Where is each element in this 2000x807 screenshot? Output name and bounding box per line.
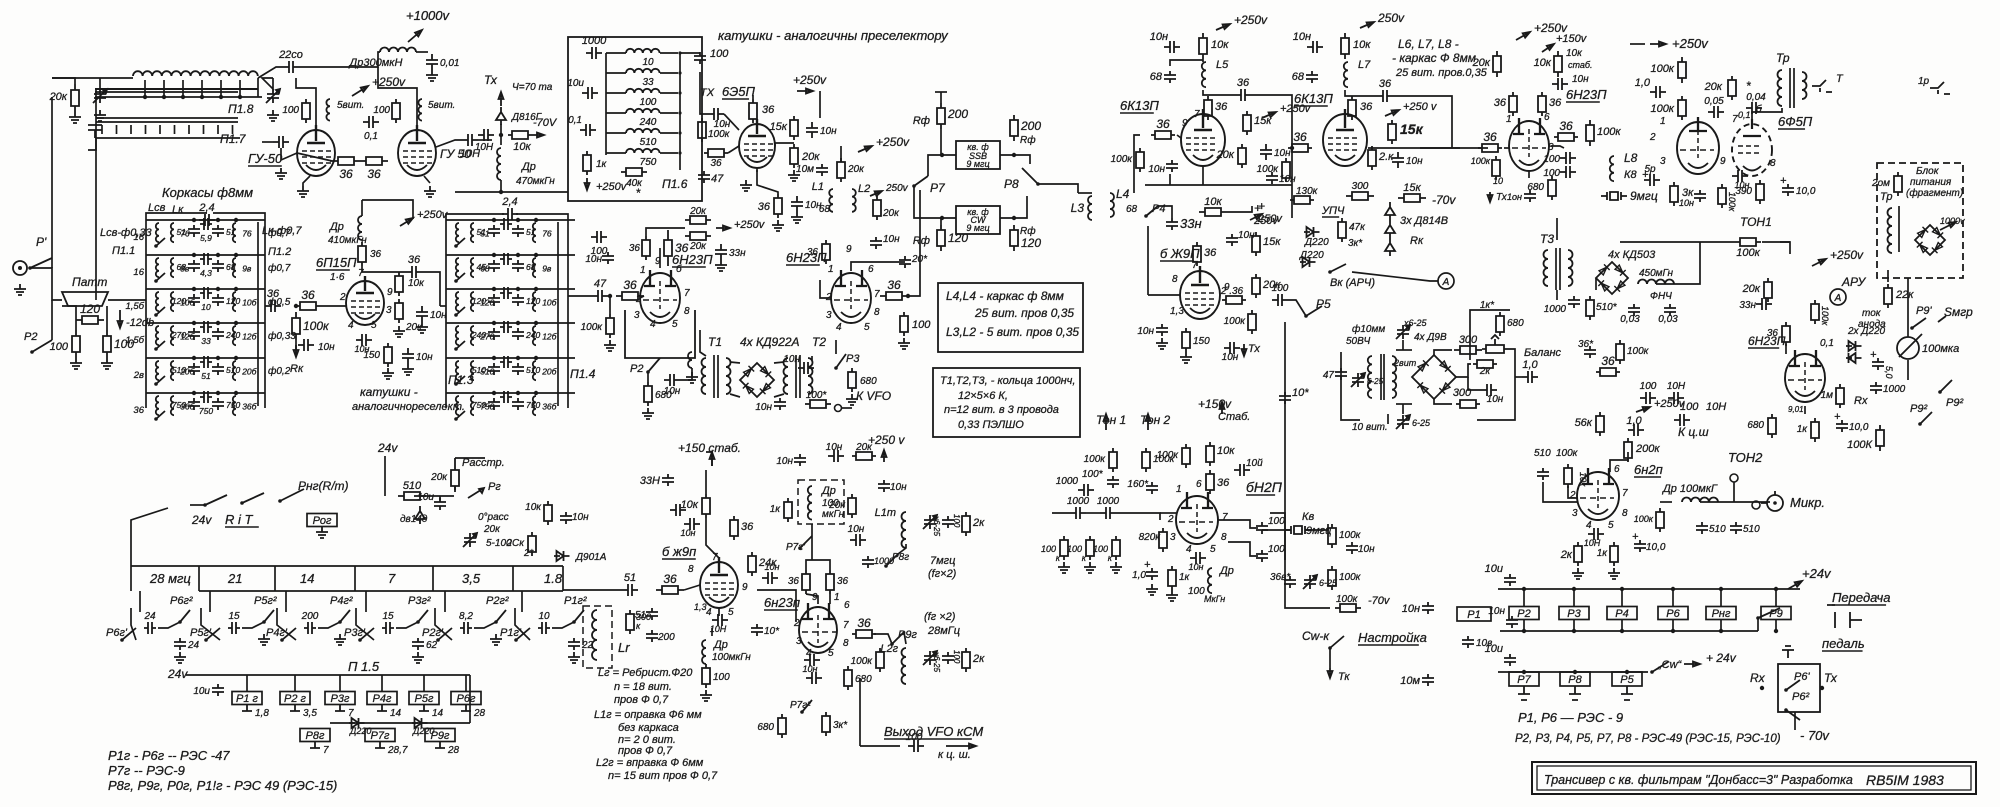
svg-text:100: 100 xyxy=(1093,544,1108,554)
svg-text:7: 7 xyxy=(843,620,849,631)
anode bars mixer2 xyxy=(835,270,867,286)
svg-text:(фрагмент): (фрагмент) xyxy=(1906,187,1963,199)
switch Р5г-1 xyxy=(204,638,208,642)
ground tick Р3г xyxy=(335,705,345,711)
diode Д220 ару2 xyxy=(1846,353,1862,363)
wire Р7 bus2 stub xyxy=(1523,671,1525,673)
resistor 1к осц xyxy=(1168,566,1176,590)
capacitor bank2 row3 c2 xyxy=(512,294,524,306)
svg-text:6Н23П: 6Н23П xyxy=(1748,334,1786,348)
svg-text:Rф: Rф xyxy=(913,115,930,127)
svg-text:450мГн: 450мГн xyxy=(1639,268,1674,279)
svg-text:20к: 20к xyxy=(801,151,820,163)
wire comb bus xyxy=(96,137,240,139)
svg-text:100: 100 xyxy=(1680,401,1699,413)
svg-text:100: 100 xyxy=(1041,544,1056,554)
svg-text:1к: 1к xyxy=(596,159,608,170)
inductor Др buf xyxy=(808,486,812,520)
ground cath cap xyxy=(402,364,414,375)
svg-text:510: 510 xyxy=(640,137,657,148)
resistor 36 det in xyxy=(1478,144,1502,152)
ground varcap right xyxy=(267,110,279,121)
svg-text:5: 5 xyxy=(371,320,377,331)
svg-text:100: 100 xyxy=(952,514,961,528)
svg-text:П1.8: П1.8 xyxy=(228,102,254,116)
capacitor 10н buf r xyxy=(878,480,890,492)
wire ару bus xyxy=(1804,406,1806,414)
svg-text:1000: 1000 xyxy=(1056,476,1079,487)
capacitor 10м mix xyxy=(816,164,828,176)
wire band separator 4 xyxy=(512,566,514,591)
svg-text:+150v: +150v xyxy=(1198,397,1232,411)
vacuum tube 6К13П 1 xyxy=(1181,114,1225,166)
resistor 20к m1a xyxy=(685,216,711,224)
wire mic grid xyxy=(1568,486,1577,498)
wire 6П15П out to bank2 xyxy=(440,305,446,307)
ground ж cath xyxy=(1180,352,1192,363)
switch Р2г-2 xyxy=(494,620,498,624)
wire тон2 stub xyxy=(1733,482,1735,502)
resistor 15к ж xyxy=(1252,232,1260,256)
svg-text:+: + xyxy=(1254,201,1261,215)
svg-text:100к: 100к xyxy=(1627,346,1650,357)
resistor 36 k2 in xyxy=(1288,144,1312,152)
wire comb tooth 8 xyxy=(217,125,219,134)
svg-text:(fг ×2): (fг ×2) xyxy=(924,611,956,623)
resistor 120 Rф bot xyxy=(937,225,945,251)
junction bias xyxy=(499,133,503,137)
wire P2 to attenuator out xyxy=(51,300,53,340)
capacitor Р4г 200 xyxy=(304,622,316,634)
junction Р6 bus xyxy=(1671,587,1675,591)
svg-text:10: 10 xyxy=(1493,176,1503,186)
svg-text:ф0,7: ф0,7 xyxy=(268,227,291,239)
ground tick Р1 г xyxy=(242,705,252,711)
resistor 36 det a xyxy=(1509,92,1517,116)
svg-text:68: 68 xyxy=(1150,71,1163,83)
svg-text:Lк: Lк xyxy=(172,204,184,216)
inductor 5вит V1 xyxy=(326,99,330,121)
resistor 100к buf xyxy=(876,648,884,672)
capacitor bank2 row6 c1 xyxy=(488,398,500,410)
switch Р1 antenna xyxy=(28,266,32,270)
resistor 2ом пс xyxy=(1894,172,1902,196)
capacitor bank1 row4 7MHz c1 xyxy=(188,328,200,340)
trimmer 6-25 кв xyxy=(1303,575,1317,589)
inductor inj m1 xyxy=(688,352,692,368)
wire bm top drop xyxy=(1402,340,1404,350)
wire pot to rail2 xyxy=(1477,349,1515,420)
svg-text:Р5г: Р5г xyxy=(415,693,434,705)
relay Р5г п15 xyxy=(409,692,439,705)
svg-text:10н: 10н xyxy=(755,402,772,413)
arrow 250v mix2 xyxy=(870,191,882,196)
svg-text:Lr: Lr xyxy=(618,640,630,655)
wire к ату xyxy=(1780,242,1790,254)
inductor L5 xyxy=(1202,62,1206,87)
resistor 20к k1 xyxy=(1238,144,1246,168)
svg-text:Баланс: Баланс xyxy=(1524,347,1562,359)
wire cap to choke xyxy=(299,52,380,67)
svg-text:RB5IM 1983: RB5IM 1983 xyxy=(1866,772,1944,788)
switch Р7 to SSB xyxy=(912,184,916,188)
inductor L3 xyxy=(1088,196,1092,220)
ground Р2г g xyxy=(490,634,502,645)
capacitor bank2 row1 c2 xyxy=(512,225,524,237)
resistor 36 ж plate xyxy=(1193,242,1201,266)
svg-text:8: 8 xyxy=(1548,142,1554,153)
svg-text:Р5: Р5 xyxy=(1620,674,1634,686)
diode Д901А xyxy=(554,551,570,561)
svg-text:5: 5 xyxy=(728,607,734,618)
switch rit a xyxy=(203,503,207,507)
wire р4 line xyxy=(1158,206,1172,218)
wire bank2 row5 rail xyxy=(446,357,575,359)
svg-text:Тх: Тх xyxy=(484,73,498,87)
svg-text:36: 36 xyxy=(301,288,315,302)
ground att right xyxy=(101,358,113,369)
svg-text:Тх: Тх xyxy=(1824,671,1838,685)
svg-text:Rх: Rх xyxy=(1854,395,1868,407)
svg-text:Р8г, Р9г, Р0г, Р1!г - РЭС 49 (: Р8г, Р9г, Р0г, Р1!г - РЭС 49 (РЭС-15) xyxy=(108,778,337,793)
capacitor Р1г 10 xyxy=(538,622,550,634)
svg-text:1000: 1000 xyxy=(1097,496,1120,507)
capacitor 10н Rк xyxy=(298,339,314,351)
inductor 10 п16 xyxy=(626,49,660,53)
svg-text:Р9²: Р9² xyxy=(1946,397,1963,409)
resistor 36 ару xyxy=(1782,322,1790,346)
wire band drop 0 xyxy=(139,591,141,612)
wire т3 net xyxy=(1595,278,1597,290)
junction bank2 row1 a xyxy=(492,218,496,222)
svg-text:36: 36 xyxy=(1559,119,1573,133)
capacitor 10н k1r xyxy=(1260,144,1272,160)
svg-text:36: 36 xyxy=(762,104,775,116)
wire k2 tank to cap xyxy=(1345,90,1377,96)
svg-text:+250v: +250v xyxy=(793,73,827,87)
inductor bank2 row4 Lout xyxy=(533,326,536,345)
junction bank2 row6 a xyxy=(492,391,496,395)
resistor 300 bm top xyxy=(1454,346,1482,354)
svg-text:Р1: Р1 xyxy=(1467,609,1480,621)
wire T1 core a xyxy=(713,355,715,398)
svg-text:36: 36 xyxy=(1217,477,1230,489)
svg-text:2Ск: 2Ск xyxy=(505,538,525,549)
arrow тх ж xyxy=(1242,344,1247,356)
inductor L8 det xyxy=(1610,156,1614,181)
capacitor bank1 row2 21MHz c2 xyxy=(212,260,224,272)
wire PA out xyxy=(436,140,462,147)
capacitor 5,0 ф cath xyxy=(1644,174,1660,186)
svg-text:ф0,7: ф0,7 xyxy=(268,262,291,274)
switch Р2 bypass xyxy=(30,350,34,354)
inductor T1 secondary xyxy=(726,358,731,394)
wire п16 row 33 left xyxy=(606,72,626,74)
junction п16 750 xyxy=(678,151,681,154)
junction Р9 bus low xyxy=(1774,629,1778,633)
inductor bank2 row2 Lсв xyxy=(456,258,459,277)
ground screen cap xyxy=(416,322,428,333)
resistor 20к ж xyxy=(1252,274,1260,298)
relay Р7 bus2 xyxy=(1509,672,1539,686)
svg-text:100к: 100к xyxy=(708,129,731,140)
capacitor 1000 т3 xyxy=(1568,296,1580,308)
svg-text:1,5б: 1,5б xyxy=(125,301,144,312)
wire bm top rail xyxy=(1396,349,1412,351)
svg-text:А: А xyxy=(1442,277,1450,288)
svg-text:педаль: педаль xyxy=(1822,636,1865,651)
svg-text:пров Ф 0,7: пров Ф 0,7 xyxy=(618,745,673,757)
svg-text:10б: 10б xyxy=(242,298,257,308)
vacuum tube 6Н23П mixer1 xyxy=(640,273,680,323)
capacitor 0,1 screen xyxy=(363,116,379,128)
wire 6ж9п grid xyxy=(1148,294,1180,296)
svg-text:15к: 15к xyxy=(1400,121,1424,137)
svg-text:100к: 100к xyxy=(303,319,330,333)
resistor 300 bm bot xyxy=(1456,400,1480,408)
svg-text:6К13П: 6К13П xyxy=(1294,91,1333,106)
junction bank2 row2 c xyxy=(534,253,538,257)
svg-text:Т1,Т2,Т3, - кольца 1000нч,: Т1,Т2,Т3, - кольца 1000нч, xyxy=(940,375,1075,387)
ground 33н m1 xyxy=(715,260,727,271)
svg-text:100: 100 xyxy=(1543,154,1560,165)
svg-text:+150 стаб.: +150 стаб. xyxy=(678,441,741,455)
junction bank1 row4 7MHz b xyxy=(216,321,220,325)
wire Р1г drop xyxy=(515,608,530,640)
svg-text:1р: 1р xyxy=(1918,76,1930,87)
resistor 150 cathode xyxy=(384,343,392,367)
resistor 100к ф b xyxy=(1678,96,1686,120)
svg-text:100: 100 xyxy=(1067,544,1082,554)
relay Р1 bus xyxy=(1457,607,1491,621)
svg-text:100к: 100к xyxy=(1556,448,1579,459)
svg-text:Р6г²: Р6г² xyxy=(170,595,193,607)
capacitor 10и bus a xyxy=(1504,574,1516,586)
wire choke to +250 xyxy=(362,200,413,219)
relay Р1 г п15 xyxy=(232,692,262,705)
inductor bank2 row6 Lout xyxy=(533,396,536,415)
svg-text:14: 14 xyxy=(432,708,444,719)
svg-text:100к: 100к xyxy=(1339,530,1362,541)
junction Р2 bus low xyxy=(1522,629,1526,633)
svg-text:Rф: Rф xyxy=(913,235,930,247)
diode Д814В 2 xyxy=(1385,220,1395,238)
svg-text:Др: Др xyxy=(328,221,344,233)
junction bank1 row5 3.5MHz a xyxy=(192,356,196,360)
svg-text:Настройка: Настройка xyxy=(1358,630,1427,645)
diode Д220 ару1 xyxy=(1846,341,1862,351)
svg-text:6Н23П: 6Н23П xyxy=(1566,87,1607,102)
svg-text:х6-25: х6-25 xyxy=(932,515,941,537)
svg-text:МкГн: МкГн xyxy=(1204,594,1225,604)
wire band bus bottom xyxy=(199,590,563,592)
wire ж to р5 xyxy=(1288,300,1306,316)
vacuum tube 6Ф5П pentode envelope xyxy=(1732,124,1772,176)
wire band drop 2 xyxy=(285,591,287,612)
wire mixer chain xyxy=(774,143,776,146)
svg-text:К ц.ш: К ц.ш xyxy=(1678,425,1709,439)
svg-text:П1.7: П1.7 xyxy=(220,132,247,146)
svg-text:Р': Р' xyxy=(36,235,47,249)
junction bank2 row3 b xyxy=(516,287,520,291)
capacitor 36 out xyxy=(406,266,422,278)
box Др buf dashed xyxy=(798,480,844,524)
resistor 100к тон2 xyxy=(1142,448,1150,472)
resistor 680 m2 xyxy=(848,368,856,392)
svg-text:2к: 2к xyxy=(972,517,985,529)
ground cathode V1 xyxy=(297,186,309,197)
svg-text:L1г = оправка Ф6 мм: L1г = оправка Ф6 мм xyxy=(594,709,702,721)
capacitor bank2 row5 c1 xyxy=(488,363,500,375)
junction cw out xyxy=(1012,216,1016,220)
svg-text:12×5×6 К,: 12×5×6 К, xyxy=(958,390,1008,402)
svg-text:5,0: 5,0 xyxy=(1884,366,1894,379)
capacitor 0,04 ф xyxy=(1746,102,1762,114)
svg-text:680: 680 xyxy=(757,722,774,733)
switch Р3 xyxy=(834,366,838,370)
switch rit c xyxy=(278,499,282,503)
svg-text:бН2П: бН2П xyxy=(1246,479,1283,495)
svg-text:П1.1: П1.1 xyxy=(112,245,135,257)
resistor 1к buf xyxy=(784,498,792,522)
capacitor Р3г 62 xyxy=(412,638,424,650)
resistor 200к mic xyxy=(1624,438,1632,462)
svg-text:10н: 10н xyxy=(1406,156,1423,167)
wire m2 grid xyxy=(820,280,831,298)
wire Р6 bus stub low xyxy=(1672,620,1674,631)
vacuum tube 6Ж9П vfo xyxy=(700,562,738,608)
svg-text:130к: 130к xyxy=(1296,186,1319,197)
resistor 36 k1 in xyxy=(1151,131,1175,139)
svg-text:L8: L8 xyxy=(1624,151,1638,165)
svg-text:120: 120 xyxy=(1021,236,1041,250)
inductor L2г xyxy=(902,648,907,684)
capacitor 100 tank2 xyxy=(942,652,954,664)
wire vfo cath choke xyxy=(718,608,720,616)
junction Р3 bus xyxy=(1572,587,1576,591)
svg-text:10н: 10н xyxy=(1572,74,1589,85)
svg-text:4,3: 4,3 xyxy=(200,268,212,278)
wire k1 tank to bus xyxy=(1203,90,1235,95)
switch Р2 vfo xyxy=(646,370,650,374)
wire тон bus xyxy=(1052,512,1070,514)
svg-text:100к: 100к xyxy=(851,656,874,667)
svg-text:7: 7 xyxy=(388,571,396,586)
resistor 10к k2 xyxy=(1341,33,1349,59)
svg-text:4: 4 xyxy=(1586,520,1592,531)
arrow +250v ж xyxy=(1250,214,1262,220)
svg-text:L7: L7 xyxy=(1358,59,1371,71)
svg-text:7: 7 xyxy=(1194,109,1200,120)
arrow +250v k2b xyxy=(1385,110,1399,116)
connector тон2 xyxy=(1730,474,1738,482)
ground att left xyxy=(70,358,82,369)
ground Рог xyxy=(316,527,328,538)
svg-text:100мка: 100мка xyxy=(1922,343,1959,355)
capacitor 10н vfo b xyxy=(762,572,778,584)
svg-text:200к: 200к xyxy=(1635,443,1660,455)
switch Р6г-2 xyxy=(178,620,182,624)
junction bank1 row6 1.8MHz c xyxy=(234,391,238,395)
svg-text:стаб.: стаб. xyxy=(1568,60,1592,70)
wire m1 inj xyxy=(680,368,692,380)
resistor 510 расстр xyxy=(398,492,426,500)
switch Р5г-2 xyxy=(262,620,266,624)
junction bank1 row5 3.5MHz c xyxy=(234,356,238,360)
svg-text:3: 3 xyxy=(634,310,640,321)
wire п16 row 10 left xyxy=(606,52,626,54)
wire Р4 bus stub low xyxy=(1621,620,1623,631)
svg-text:36: 36 xyxy=(629,243,641,254)
wire grid cap down xyxy=(281,148,297,160)
svg-text:Р3г: Р3г xyxy=(331,693,350,705)
junction bank1 row3 14MHz c xyxy=(234,287,238,291)
wire band separator 5 xyxy=(562,566,564,591)
junction tank tap 1 xyxy=(162,95,166,99)
inductor bank2 row5 Lсв xyxy=(456,361,459,380)
resistor 120 attenuator xyxy=(76,316,104,324)
svg-text:Р4г: Р4г xyxy=(373,693,392,705)
svg-text:250v: 250v xyxy=(1377,11,1405,25)
resistor 100к ару xyxy=(1811,300,1819,324)
capacitor 10н ж xyxy=(1226,234,1238,246)
resistor 130к agc xyxy=(1290,196,1314,204)
svg-text:n=12 вит. в 3 провода: n=12 вит. в 3 провода xyxy=(944,404,1059,416)
capacitor 10н mix btm xyxy=(870,237,882,249)
svg-text:10н: 10н xyxy=(1189,562,1204,572)
svg-text:Др: Др xyxy=(1218,565,1234,577)
wire varcap xyxy=(99,78,101,89)
svg-text:36: 36 xyxy=(1156,117,1170,131)
title block inner xyxy=(1537,766,1971,790)
resistor 10к det xyxy=(1554,51,1562,77)
svg-text:9: 9 xyxy=(387,287,393,298)
resistor 36 m2 out xyxy=(880,292,908,300)
svg-text:20к: 20к xyxy=(1704,81,1723,93)
inductor bank1 row2 21MHz Lсв xyxy=(156,258,159,277)
svg-text:0,1: 0,1 xyxy=(364,131,378,142)
svg-text:Др: Др xyxy=(520,161,536,173)
svg-text:15: 15 xyxy=(228,611,240,622)
inductor bank1 row1 28MHz Lout xyxy=(233,223,236,242)
svg-text:0°расс: 0°расс xyxy=(478,512,509,523)
svg-text:П1.6: П1.6 xyxy=(662,177,688,191)
svg-text:100: 100 xyxy=(710,48,729,60)
svg-text:Д220: Д220 xyxy=(412,726,434,736)
wire п16 left column xyxy=(605,53,607,155)
junction tank tap 5 xyxy=(238,95,242,99)
inductor T2 secondary xyxy=(808,358,813,394)
svg-text:10н: 10н xyxy=(1148,164,1165,175)
wire кв net2 xyxy=(1262,529,1290,531)
wire р2 down xyxy=(647,372,649,382)
svg-text:- 70v: - 70v xyxy=(1800,728,1830,743)
svg-text:36: 36 xyxy=(1293,130,1307,144)
switch rit b xyxy=(240,501,244,505)
wire р7 up to ssb xyxy=(928,155,956,176)
svg-text:10к: 10к xyxy=(525,502,542,513)
diode Д220 п15 b xyxy=(412,718,428,728)
vacuum tube 6Э5П xyxy=(739,124,775,168)
svg-text:пров Ф 0,7: пров Ф 0,7 xyxy=(614,694,669,706)
wire vfo plate down xyxy=(706,518,719,558)
wire varcap right xyxy=(262,78,273,89)
arrow -12db xyxy=(118,310,123,328)
inductor Lr xyxy=(592,610,597,660)
wire Р5г link xyxy=(242,622,264,628)
junction tank tap 3 xyxy=(200,95,204,99)
capacitor 51 vfo in xyxy=(622,584,638,596)
